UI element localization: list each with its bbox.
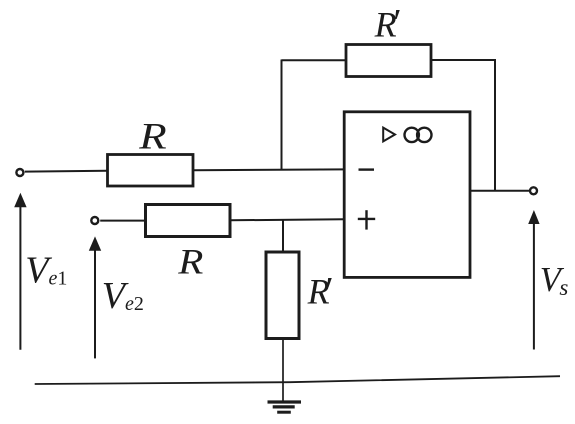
wire R1 to op-amp minus input	[193, 168, 344, 171]
svg-text:R: R	[138, 115, 167, 156]
wire input e1 to R1	[25, 170, 107, 173]
arrow Ve2 line	[94, 249, 96, 358]
label R1 value	[138, 115, 167, 156]
wire feedback right vertical to output	[494, 59, 496, 191]
svg-text:′: ′	[323, 270, 332, 312]
op-amp inverting input minus sign	[359, 168, 375, 170]
arrow Ve1 line	[19, 205, 21, 350]
op-amp U1 body	[344, 112, 470, 278]
arrow Vs head	[528, 210, 539, 224]
resistor R' feedback	[346, 45, 431, 77]
wire R' bottom to ground	[282, 339, 284, 402]
ground symbol bar 2	[273, 405, 295, 408]
op-amp infinity symbol right loop	[417, 128, 431, 142]
resistor R' to ground	[266, 252, 299, 339]
arrow Ve2 head	[89, 236, 101, 250]
svg-text:Vs: Vs	[540, 261, 569, 300]
wire op-amp output	[470, 190, 529, 192]
wire feedback left horizontal	[282, 59, 347, 61]
wire R2 to op-amp plus input	[230, 219, 344, 220]
wire feedback left vertical	[281, 60, 283, 171]
op-amp infinity symbol left loop	[405, 128, 419, 142]
wire feedback right horizontal	[431, 59, 495, 61]
ground rail	[35, 376, 560, 384]
resistor R1	[108, 155, 194, 187]
node junction plus wire to R' ground	[282, 220, 284, 252]
ground symbol bar 3	[277, 411, 291, 414]
arrow Ve1 head	[14, 193, 26, 207]
ground symbol bar 1	[268, 400, 302, 403]
svg-text:Ve1: Ve1	[25, 250, 67, 292]
op-amp non-inverting input plus sign horizontal	[358, 218, 375, 220]
output terminal s	[530, 187, 537, 194]
svg-text:′: ′	[391, 2, 400, 44]
arrow Vs line	[533, 222, 535, 350]
svg-text:R: R	[177, 243, 203, 282]
input terminal e1	[16, 169, 23, 176]
op-amp ideal triangle symbol	[383, 128, 395, 142]
label R2 value	[177, 243, 203, 282]
svg-text:Ve2: Ve2	[102, 275, 144, 317]
resistor R2	[146, 205, 231, 237]
op-amp non-inverting input plus sign vertical	[365, 210, 367, 229]
wire input e2 to R2	[100, 220, 145, 222]
input terminal e2	[91, 217, 98, 224]
